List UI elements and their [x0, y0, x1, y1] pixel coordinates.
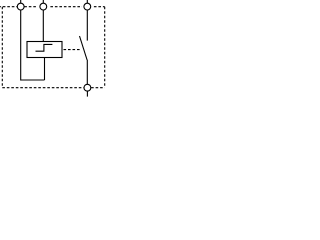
mechanical linkage (dashed) from box to switch blade [64, 49, 81, 51]
wire: pin 2 down to actuator box top [42, 10, 44, 42]
terminal pin 2 (top middle) [40, 0, 47, 10]
wire: pin 1 down the left side [20, 10, 22, 81]
hysteresis step symbol inside box [36, 44, 53, 51]
terminal pin 3 (top right) [84, 0, 91, 10]
terminal pin 1 (top left) [17, 0, 24, 10]
subcircuit boundary right edge (dashed) [104, 7, 106, 88]
subcircuit boundary left edge (dashed) [1, 7, 3, 88]
wire: actuator box bottom down [44, 58, 46, 81]
subcircuit boundary bottom edge (dashed) [2, 87, 104, 89]
subcircuit boundary top edge (dashed) [0, 6, 105, 8]
terminal pin 4 (bottom right) [84, 84, 91, 96]
switch blade (open contact) [80, 36, 88, 60]
wire: switch pivot down to pin 4 [86, 60, 88, 85]
wire: pin 3 down to switch fixed contact [86, 10, 88, 41]
actuator box (hysteresis element) [27, 42, 62, 58]
wire: horizontal run at bottom [21, 79, 45, 81]
